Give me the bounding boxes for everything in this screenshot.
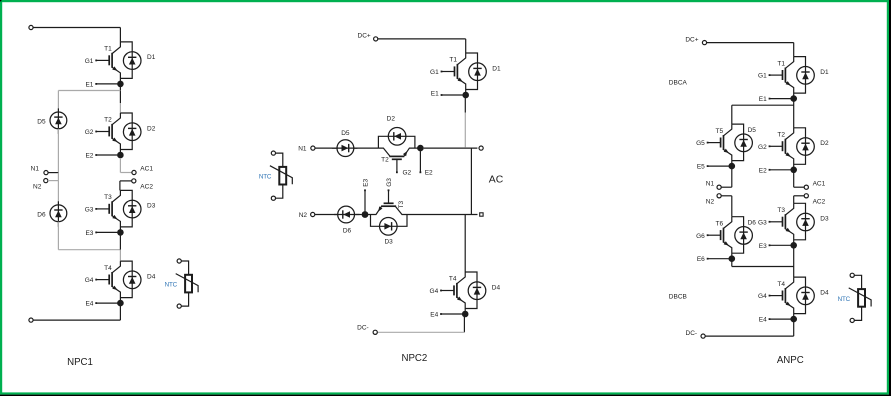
svg-text:N1: N1 bbox=[298, 146, 307, 153]
svg-text:AC1: AC1 bbox=[813, 181, 826, 188]
svg-text:T4: T4 bbox=[777, 281, 785, 288]
svg-text:G2: G2 bbox=[758, 144, 767, 151]
svg-text:DC-: DC- bbox=[357, 325, 369, 332]
svg-text:E3: E3 bbox=[759, 243, 767, 250]
svg-text:E4: E4 bbox=[430, 312, 438, 319]
svg-text:T5: T5 bbox=[716, 128, 724, 135]
svg-text:ANPC: ANPC bbox=[777, 355, 804, 366]
svg-text:E3: E3 bbox=[363, 178, 370, 186]
svg-text:N1: N1 bbox=[706, 181, 715, 188]
svg-text:G3: G3 bbox=[386, 178, 393, 187]
svg-text:D1: D1 bbox=[820, 69, 829, 76]
svg-text:D4: D4 bbox=[147, 273, 156, 280]
svg-text:NTC: NTC bbox=[259, 174, 272, 181]
svg-text:AC2: AC2 bbox=[813, 198, 826, 205]
svg-text:G4: G4 bbox=[758, 293, 767, 300]
svg-text:NPC1: NPC1 bbox=[67, 357, 93, 368]
svg-text:T3: T3 bbox=[777, 207, 785, 214]
svg-text:D4: D4 bbox=[492, 284, 501, 291]
svg-text:G4: G4 bbox=[430, 288, 439, 295]
svg-text:D1: D1 bbox=[492, 65, 501, 72]
svg-text:E1: E1 bbox=[85, 81, 93, 88]
svg-text:T2: T2 bbox=[381, 157, 389, 164]
svg-text:T4: T4 bbox=[449, 276, 457, 283]
svg-text:G2: G2 bbox=[85, 129, 94, 136]
svg-text:E2: E2 bbox=[759, 167, 767, 174]
svg-text:D6: D6 bbox=[748, 220, 757, 227]
svg-text:NPC2: NPC2 bbox=[401, 353, 427, 364]
svg-text:T1: T1 bbox=[104, 46, 112, 53]
svg-text:E1: E1 bbox=[431, 90, 439, 97]
svg-text:DBCA: DBCA bbox=[669, 80, 688, 87]
svg-text:G5: G5 bbox=[696, 140, 705, 147]
svg-text:D6: D6 bbox=[37, 211, 46, 218]
svg-text:T3: T3 bbox=[104, 194, 112, 201]
svg-text:N2: N2 bbox=[706, 198, 715, 205]
svg-text:N1: N1 bbox=[31, 166, 40, 173]
svg-text:N2: N2 bbox=[299, 212, 308, 219]
svg-text:D5: D5 bbox=[37, 119, 46, 126]
svg-text:T1: T1 bbox=[777, 60, 785, 67]
svg-text:D2: D2 bbox=[820, 140, 829, 147]
svg-text:NTC: NTC bbox=[838, 296, 851, 303]
svg-text:E4: E4 bbox=[85, 301, 93, 308]
svg-text:E1: E1 bbox=[759, 96, 767, 103]
svg-text:G1: G1 bbox=[430, 69, 439, 76]
svg-text:G1: G1 bbox=[758, 73, 767, 80]
svg-text:AC1: AC1 bbox=[140, 166, 153, 173]
svg-text:T3: T3 bbox=[398, 201, 405, 209]
svg-text:T2: T2 bbox=[777, 132, 785, 139]
svg-text:T6: T6 bbox=[716, 220, 724, 227]
svg-text:E4: E4 bbox=[759, 317, 767, 324]
svg-text:D3: D3 bbox=[147, 203, 156, 210]
svg-text:D1: D1 bbox=[147, 54, 156, 61]
svg-text:D3: D3 bbox=[820, 216, 829, 223]
svg-text:D6: D6 bbox=[343, 227, 352, 234]
svg-text:DC-: DC- bbox=[686, 330, 698, 337]
svg-text:E3: E3 bbox=[85, 230, 93, 237]
svg-text:T1: T1 bbox=[449, 57, 457, 64]
svg-text:D2: D2 bbox=[147, 125, 156, 132]
svg-text:N2: N2 bbox=[33, 184, 42, 191]
svg-text:DBCB: DBCB bbox=[669, 294, 687, 301]
svg-text:G4: G4 bbox=[85, 277, 94, 284]
svg-text:T2: T2 bbox=[104, 117, 112, 124]
svg-text:D4: D4 bbox=[820, 289, 829, 296]
svg-text:E6: E6 bbox=[697, 256, 705, 263]
svg-text:G1: G1 bbox=[85, 58, 94, 65]
svg-text:D5: D5 bbox=[341, 130, 350, 137]
svg-text:DC+: DC+ bbox=[685, 36, 698, 43]
svg-text:E2: E2 bbox=[425, 170, 433, 177]
svg-text:G2: G2 bbox=[403, 170, 412, 177]
svg-text:G6: G6 bbox=[696, 233, 705, 240]
svg-text:D2: D2 bbox=[387, 115, 396, 122]
svg-text:G3: G3 bbox=[85, 207, 94, 214]
svg-text:E5: E5 bbox=[697, 164, 705, 171]
svg-text:AC: AC bbox=[489, 174, 504, 185]
svg-text:DC+: DC+ bbox=[358, 33, 371, 40]
svg-text:E2: E2 bbox=[85, 153, 93, 160]
svg-text:D5: D5 bbox=[748, 127, 757, 134]
svg-text:G3: G3 bbox=[758, 219, 767, 226]
svg-text:NTC: NTC bbox=[165, 282, 178, 289]
svg-text:T4: T4 bbox=[104, 265, 112, 272]
svg-text:D3: D3 bbox=[384, 238, 393, 245]
svg-text:AC2: AC2 bbox=[140, 184, 153, 191]
